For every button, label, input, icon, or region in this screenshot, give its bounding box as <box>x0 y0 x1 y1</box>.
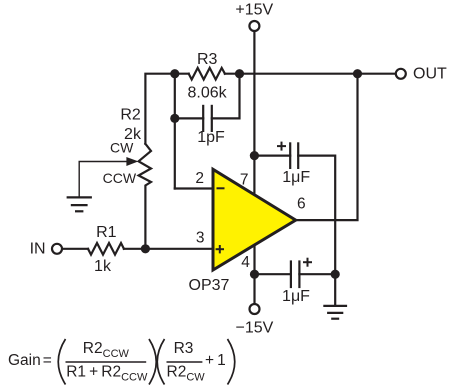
svg-text:2: 2 <box>195 170 204 187</box>
svg-text:+15V: +15V <box>235 2 273 19</box>
svg-text:4: 4 <box>241 254 250 271</box>
svg-text:R2: R2 <box>120 107 141 124</box>
svg-text:1μF: 1μF <box>282 288 310 305</box>
svg-text:R3: R3 <box>197 51 218 68</box>
svg-text:1pF: 1pF <box>197 129 225 146</box>
svg-text:−15V: −15V <box>235 320 273 337</box>
svg-text:1k: 1k <box>94 258 112 275</box>
svg-text:CW: CW <box>110 139 134 155</box>
svg-text:7: 7 <box>240 172 249 189</box>
svg-text:OUT: OUT <box>413 66 447 83</box>
svg-text:+ 1: + 1 <box>205 352 226 369</box>
svg-text:=: = <box>43 352 52 369</box>
svg-text:Gain: Gain <box>8 352 41 369</box>
svg-text:6: 6 <box>297 196 306 213</box>
svg-text:OP37: OP37 <box>189 277 230 294</box>
svg-text:3: 3 <box>196 229 205 246</box>
svg-text:IN: IN <box>30 240 46 257</box>
svg-text:R1: R1 <box>96 224 117 241</box>
svg-text:1μF: 1μF <box>282 169 310 186</box>
svg-text:8.06k: 8.06k <box>188 85 228 102</box>
svg-text:R3: R3 <box>174 340 194 357</box>
svg-text:CCW: CCW <box>103 170 137 186</box>
